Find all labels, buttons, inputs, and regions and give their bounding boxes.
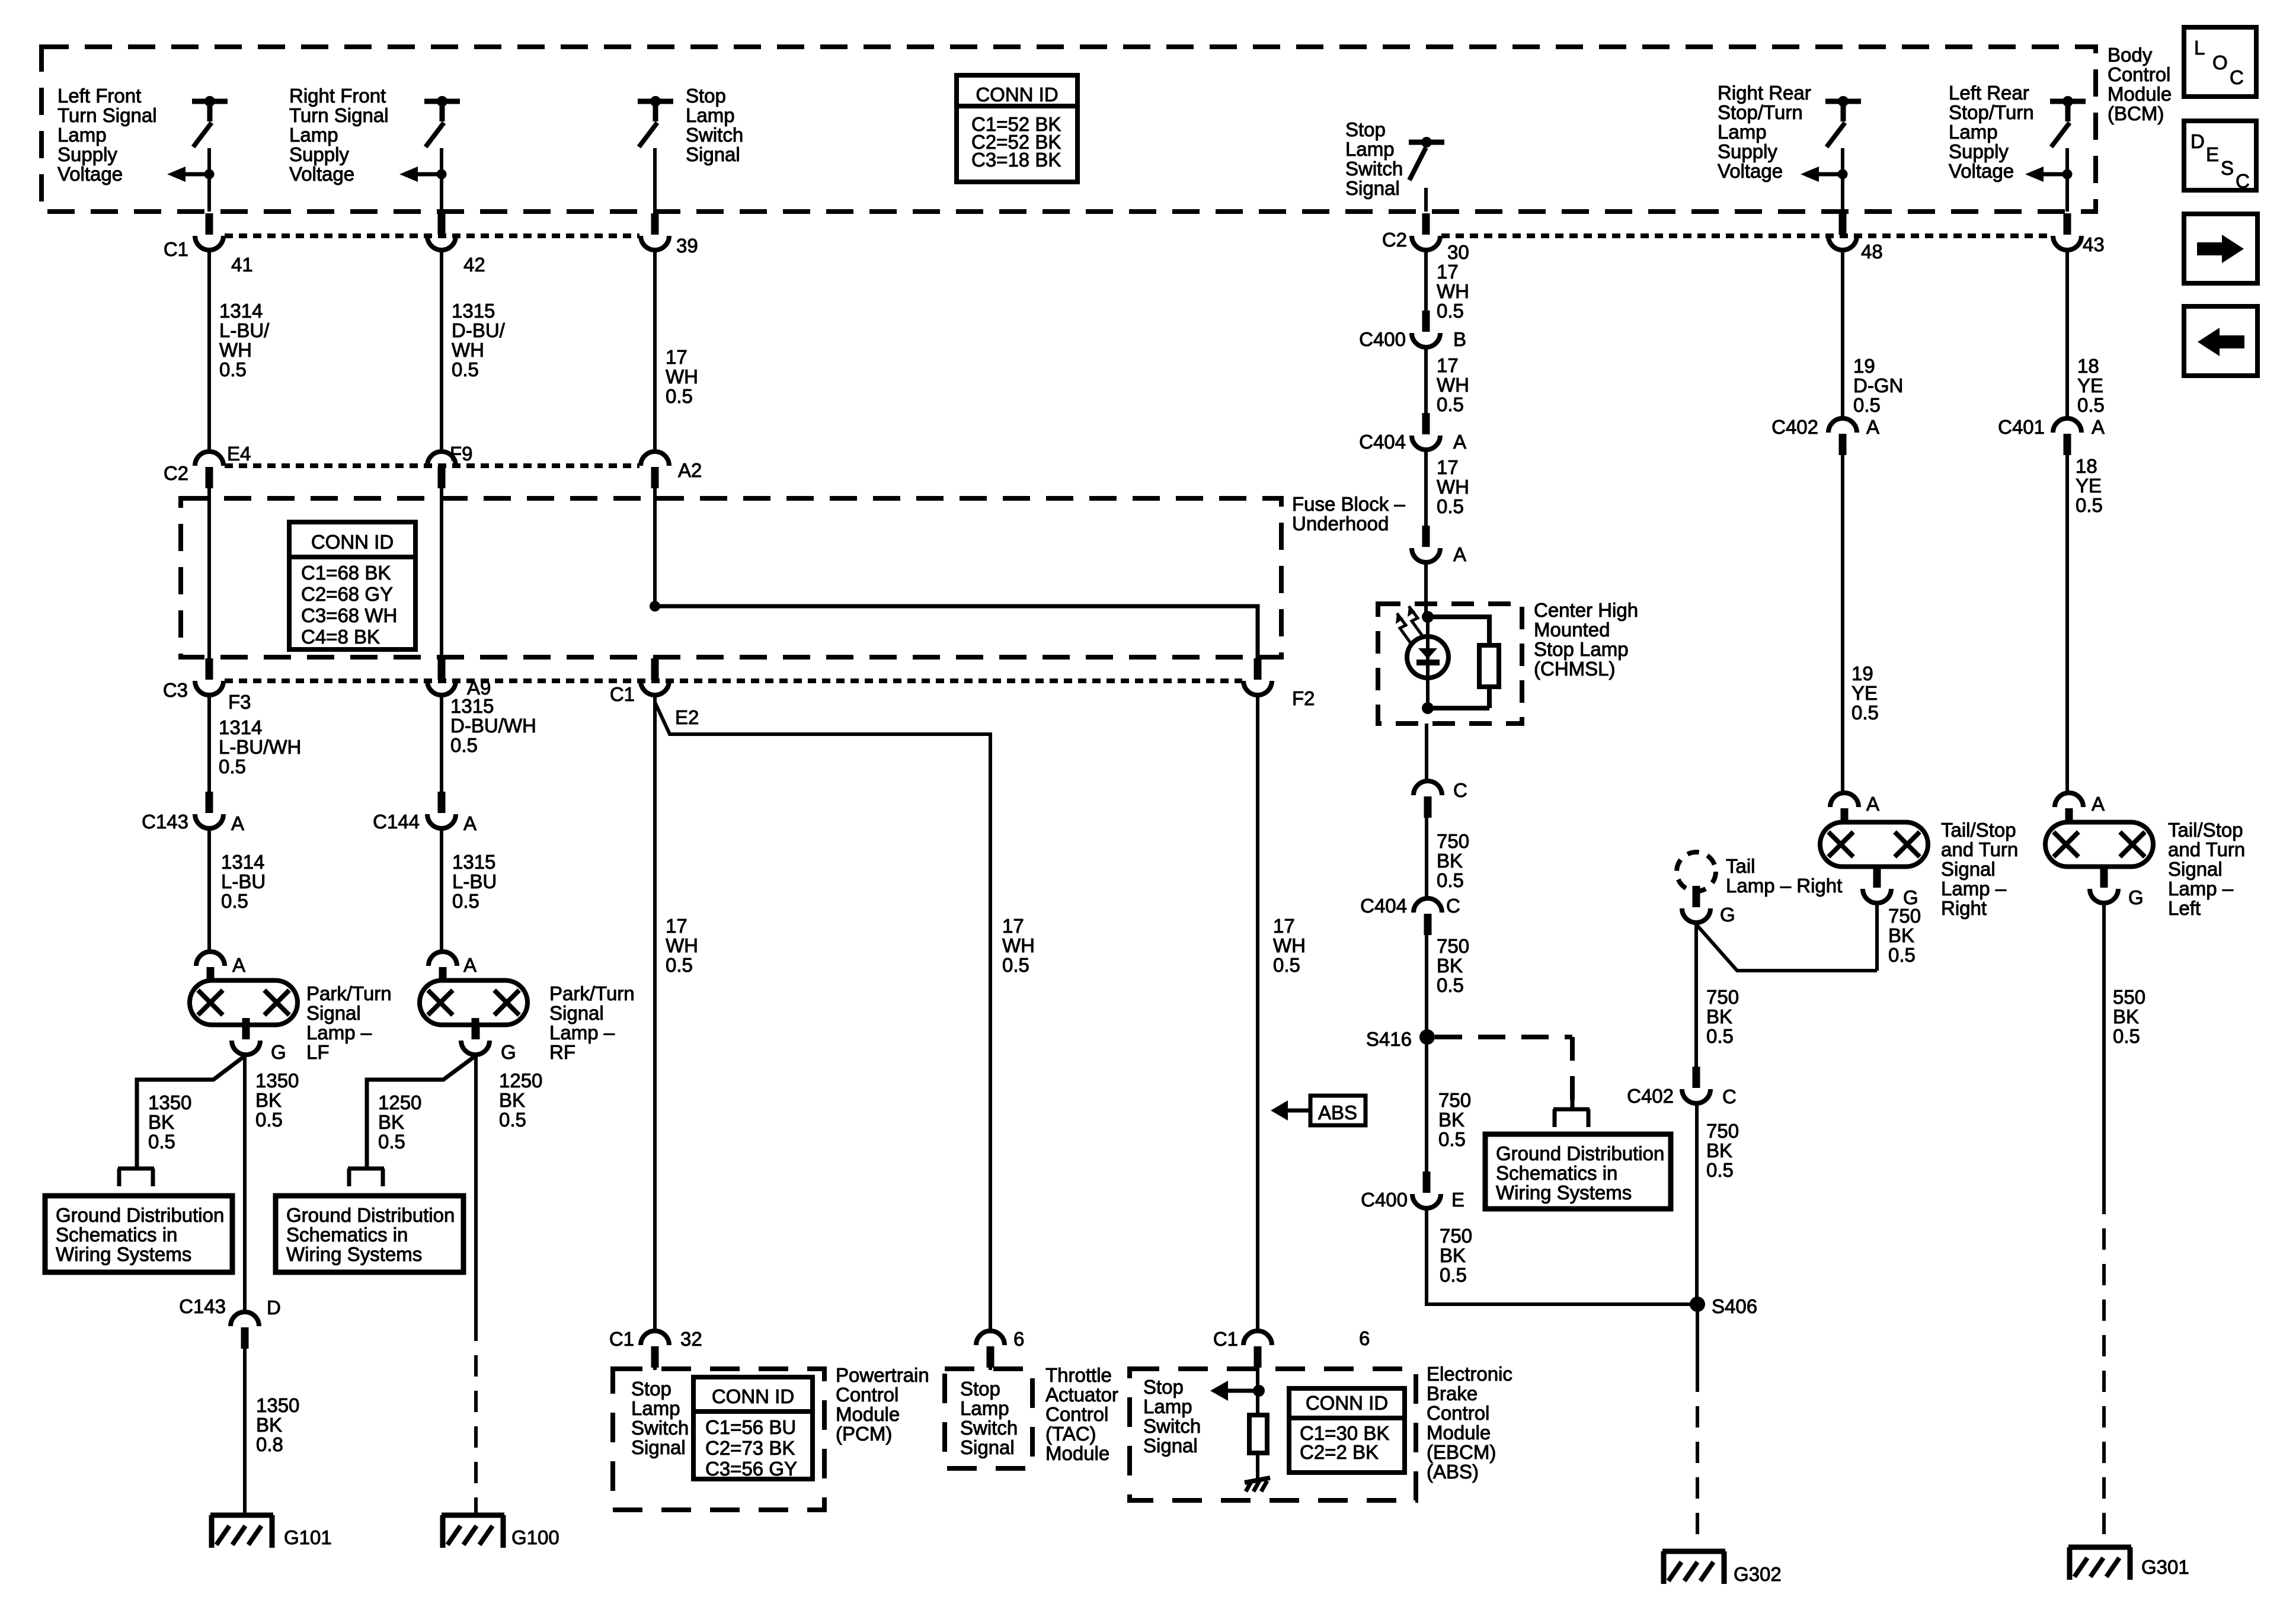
svg-text:C: C <box>2236 170 2250 192</box>
svg-text:Switch: Switch <box>1345 158 1403 180</box>
svg-text:0.5: 0.5 <box>255 1109 283 1131</box>
svg-text:S406: S406 <box>1712 1295 1757 1317</box>
svg-text:A2: A2 <box>678 459 702 481</box>
svg-text:0.5: 0.5 <box>1437 495 1464 517</box>
svg-text:32: 32 <box>680 1328 702 1350</box>
svg-text:0.5: 0.5 <box>450 734 478 756</box>
svg-text:D-BU/WH: D-BU/WH <box>450 715 536 737</box>
svg-text:0.5: 0.5 <box>1853 394 1881 416</box>
svg-text:E: E <box>1451 1189 1464 1211</box>
svg-text:Switch: Switch <box>686 124 743 146</box>
svg-text:L: L <box>2194 37 2205 59</box>
svg-text:0.5: 0.5 <box>2077 394 2105 416</box>
svg-text:Signal: Signal <box>960 1436 1015 1458</box>
svg-text:C1: C1 <box>609 1328 634 1350</box>
svg-text:Wiring Systems: Wiring Systems <box>1496 1182 1632 1204</box>
svg-text:0.5: 0.5 <box>1437 869 1464 891</box>
svg-text:0.5: 0.5 <box>2113 1025 2140 1047</box>
svg-text:(EBCM): (EBCM) <box>1427 1441 1496 1463</box>
svg-text:BK: BK <box>1888 924 1914 946</box>
svg-text:750: 750 <box>1706 986 1739 1008</box>
svg-text:0.5: 0.5 <box>148 1131 175 1153</box>
svg-text:Signal: Signal <box>631 1436 686 1458</box>
svg-text:Voltage: Voltage <box>1949 160 2014 182</box>
svg-text:Switch: Switch <box>631 1417 689 1439</box>
svg-text:Right Front: Right Front <box>289 85 386 107</box>
svg-text:C143: C143 <box>142 811 188 833</box>
svg-text:0.5: 0.5 <box>219 359 247 380</box>
svg-text:Lamp: Lamp <box>631 1397 680 1419</box>
svg-text:C402: C402 <box>1771 416 1818 438</box>
svg-text:YE: YE <box>2076 475 2102 497</box>
svg-text:Signal: Signal <box>686 143 740 165</box>
svg-text:BK: BK <box>148 1111 174 1133</box>
svg-text:D-BU/: D-BU/ <box>452 319 506 341</box>
svg-text:C404: C404 <box>1360 895 1407 917</box>
svg-text:Stop/Turn: Stop/Turn <box>1949 101 2034 123</box>
svg-text:Lamp: Lamp <box>1949 121 1998 143</box>
svg-text:Module: Module <box>836 1403 900 1425</box>
svg-text:0.5: 0.5 <box>1437 393 1464 415</box>
svg-text:Tail: Tail <box>1726 855 1755 877</box>
svg-text:Switch: Switch <box>960 1417 1018 1439</box>
svg-text:0.5: 0.5 <box>1440 1264 1467 1286</box>
svg-text:Underhood: Underhood <box>1292 513 1389 534</box>
svg-text:C: C <box>1446 895 1460 917</box>
svg-text:Lamp – Right: Lamp – Right <box>1726 875 1842 897</box>
svg-text:Schematics in: Schematics in <box>56 1224 177 1246</box>
svg-text:750: 750 <box>1440 1225 1472 1247</box>
svg-text:1315: 1315 <box>450 695 494 717</box>
svg-text:Left Rear: Left Rear <box>1949 82 2029 104</box>
svg-text:L-BU/WH: L-BU/WH <box>219 736 301 758</box>
svg-text:(BCM): (BCM) <box>2108 103 2164 124</box>
svg-text:C1=56 BU: C1=56 BU <box>705 1416 796 1438</box>
svg-text:Supply: Supply <box>1949 140 2009 162</box>
svg-text:30: 30 <box>1447 241 1469 263</box>
svg-text:Center High: Center High <box>1534 599 1638 621</box>
svg-text:19: 19 <box>1853 355 1875 377</box>
svg-text:(ABS): (ABS) <box>1427 1461 1479 1483</box>
svg-text:750: 750 <box>1888 905 1921 927</box>
svg-text:Signal: Signal <box>306 1002 361 1024</box>
svg-text:RF: RF <box>549 1041 575 1063</box>
svg-text:BK: BK <box>2113 1006 2139 1028</box>
svg-text:Tail/Stop: Tail/Stop <box>1941 819 2016 841</box>
svg-text:BK: BK <box>1440 1244 1466 1266</box>
svg-text:F9: F9 <box>450 443 473 465</box>
svg-text:Mounted: Mounted <box>1534 619 1610 641</box>
svg-text:17: 17 <box>1273 915 1295 937</box>
svg-text:42: 42 <box>463 254 485 276</box>
svg-text:0.5: 0.5 <box>499 1109 526 1131</box>
svg-text:1314: 1314 <box>219 716 262 738</box>
svg-text:A: A <box>1453 431 1466 453</box>
svg-text:and Turn: and Turn <box>2168 838 2245 860</box>
svg-text:Wiring Systems: Wiring Systems <box>56 1243 191 1265</box>
svg-text:WH: WH <box>1437 476 1469 498</box>
svg-text:CONN ID: CONN ID <box>311 531 394 553</box>
svg-text:Throttle: Throttle <box>1045 1364 1112 1386</box>
svg-text:CONN ID: CONN ID <box>712 1385 794 1407</box>
svg-text:WH: WH <box>1002 934 1035 956</box>
svg-text:Supply: Supply <box>289 143 349 165</box>
svg-text:Lamp –: Lamp – <box>306 1022 372 1044</box>
svg-text:BK: BK <box>1438 1109 1464 1131</box>
svg-text:0.5: 0.5 <box>1437 300 1464 322</box>
svg-text:Left Front: Left Front <box>57 85 141 107</box>
svg-text:Lamp: Lamp <box>960 1397 1009 1419</box>
svg-text:Lamp: Lamp <box>686 104 735 126</box>
svg-text:G: G <box>2128 886 2144 908</box>
svg-text:D: D <box>267 1297 281 1318</box>
svg-text:A: A <box>463 954 477 976</box>
svg-text:17: 17 <box>1437 354 1459 376</box>
svg-text:Electronic: Electronic <box>1427 1363 1512 1385</box>
svg-text:1314: 1314 <box>221 851 264 873</box>
svg-text:Powertrain: Powertrain <box>836 1364 929 1386</box>
svg-text:Lamp: Lamp <box>57 124 107 146</box>
svg-text:Right: Right <box>1941 897 1987 919</box>
svg-text:Signal: Signal <box>1941 858 1996 880</box>
svg-text:Ground Distribution: Ground Distribution <box>286 1204 455 1226</box>
svg-text:Lamp –: Lamp – <box>549 1022 615 1044</box>
svg-text:C401: C401 <box>1998 416 2045 438</box>
svg-text:1315: 1315 <box>452 851 495 873</box>
svg-text:0.5: 0.5 <box>666 954 693 976</box>
svg-text:0.5: 0.5 <box>1851 702 1879 724</box>
svg-text:0.5: 0.5 <box>1438 1128 1466 1150</box>
svg-text:WH: WH <box>452 339 484 361</box>
svg-text:Stop: Stop <box>1143 1376 1184 1398</box>
svg-text:BK: BK <box>1706 1006 1732 1028</box>
svg-text:0.5: 0.5 <box>1888 944 1916 966</box>
svg-text:Module: Module <box>1427 1422 1491 1443</box>
svg-text:YE: YE <box>2077 375 2103 396</box>
svg-text:Park/Turn: Park/Turn <box>306 982 392 1004</box>
svg-text:Fuse Block –: Fuse Block – <box>1292 493 1405 515</box>
svg-text:Actuator: Actuator <box>1045 1384 1118 1406</box>
svg-text:0.5: 0.5 <box>1002 954 1029 976</box>
svg-text:Park/Turn: Park/Turn <box>549 982 635 1004</box>
svg-text:41: 41 <box>231 254 253 276</box>
svg-text:43: 43 <box>2083 233 2105 255</box>
svg-text:E: E <box>2206 143 2219 165</box>
svg-text:Stop: Stop <box>1345 119 1386 140</box>
svg-text:Control: Control <box>2108 63 2170 85</box>
svg-text:BK: BK <box>1706 1140 1732 1161</box>
svg-text:WH: WH <box>1437 280 1469 302</box>
svg-text:Signal: Signal <box>2168 858 2223 880</box>
svg-text:0.5: 0.5 <box>666 385 693 407</box>
svg-text:F3: F3 <box>228 691 251 713</box>
svg-text:Tail/Stop: Tail/Stop <box>2168 819 2243 841</box>
svg-text:C1=68 BK: C1=68 BK <box>301 562 391 584</box>
svg-text:C: C <box>2230 66 2244 88</box>
svg-text:Stop Lamp: Stop Lamp <box>1534 638 1629 660</box>
svg-text:G: G <box>1720 904 1735 926</box>
svg-text:C3=56 GY: C3=56 GY <box>705 1458 797 1480</box>
svg-text:18: 18 <box>2077 355 2099 377</box>
svg-text:Lamp: Lamp <box>1345 138 1395 160</box>
svg-text:Turn Signal: Turn Signal <box>289 104 389 126</box>
svg-text:C143: C143 <box>179 1295 226 1317</box>
svg-text:750: 750 <box>1706 1120 1739 1142</box>
svg-text:Ground Distribution: Ground Distribution <box>1496 1142 1664 1164</box>
svg-text:C402: C402 <box>1627 1085 1674 1107</box>
svg-text:C: C <box>1722 1086 1737 1108</box>
svg-text:Signal: Signal <box>549 1002 604 1024</box>
svg-text:Stop: Stop <box>631 1378 671 1400</box>
svg-text:C2=68 GY: C2=68 GY <box>301 583 393 605</box>
svg-text:C: C <box>1453 779 1467 801</box>
svg-text:750: 750 <box>1437 830 1469 852</box>
svg-text:Stop/Turn: Stop/Turn <box>1718 101 1803 123</box>
svg-text:48: 48 <box>1861 241 1883 263</box>
svg-text:A: A <box>463 812 477 834</box>
svg-text:C2=73 BK: C2=73 BK <box>705 1437 795 1459</box>
svg-text:17: 17 <box>1437 261 1459 283</box>
svg-text:750: 750 <box>1438 1089 1471 1111</box>
svg-text:Ground Distribution: Ground Distribution <box>56 1204 224 1226</box>
svg-text:Supply: Supply <box>57 143 117 165</box>
svg-text:Control: Control <box>1427 1402 1489 1424</box>
svg-text:Signal: Signal <box>1143 1435 1198 1457</box>
svg-text:O: O <box>2212 52 2228 73</box>
svg-text:G101: G101 <box>284 1526 332 1548</box>
svg-text:C400: C400 <box>1361 1189 1408 1211</box>
svg-text:0.5: 0.5 <box>452 359 479 380</box>
svg-text:Voltage: Voltage <box>289 163 354 185</box>
svg-text:D: D <box>2191 130 2205 152</box>
svg-text:S416: S416 <box>1366 1028 1412 1050</box>
svg-text:17: 17 <box>666 346 687 368</box>
svg-text:(TAC): (TAC) <box>1045 1423 1096 1445</box>
svg-text:C3=68 WH: C3=68 WH <box>301 604 397 626</box>
svg-text:0.8: 0.8 <box>256 1433 283 1455</box>
svg-text:0.5: 0.5 <box>219 756 246 777</box>
svg-text:C3=18 BK: C3=18 BK <box>971 149 1061 171</box>
svg-text:E4: E4 <box>227 443 251 465</box>
svg-text:Left: Left <box>2168 897 2201 919</box>
svg-text:A: A <box>1866 793 1879 815</box>
svg-text:Lamp: Lamp <box>1718 121 1767 143</box>
svg-text:Wiring Systems: Wiring Systems <box>286 1243 422 1265</box>
svg-text:BK: BK <box>1437 850 1463 872</box>
svg-text:L-BU/: L-BU/ <box>219 319 270 341</box>
svg-text:Signal: Signal <box>1345 177 1400 199</box>
svg-text:G: G <box>271 1041 286 1063</box>
svg-text:S: S <box>2221 157 2234 179</box>
svg-text:A: A <box>1866 416 1879 438</box>
svg-text:A: A <box>1453 543 1466 565</box>
svg-text:(CHMSL): (CHMSL) <box>1534 658 1616 680</box>
svg-text:CONN ID: CONN ID <box>1306 1392 1388 1414</box>
svg-text:17: 17 <box>1002 915 1024 937</box>
svg-text:Voltage: Voltage <box>1718 160 1783 182</box>
svg-text:A: A <box>2092 793 2105 815</box>
svg-text:BK: BK <box>256 1414 282 1436</box>
svg-text:C2: C2 <box>1382 229 1407 251</box>
svg-text:WH: WH <box>666 366 698 388</box>
svg-text:Stop: Stop <box>960 1378 1000 1400</box>
svg-text:Lamp: Lamp <box>289 124 338 146</box>
svg-text:Supply: Supply <box>1718 140 1777 162</box>
svg-text:0.5: 0.5 <box>452 890 479 912</box>
svg-text:6: 6 <box>1359 1327 1370 1349</box>
svg-text:C4=8 BK: C4=8 BK <box>301 626 380 648</box>
svg-text:C3: C3 <box>163 679 188 701</box>
svg-text:17: 17 <box>1437 456 1459 478</box>
svg-text:Module: Module <box>1045 1442 1109 1464</box>
svg-text:G100: G100 <box>511 1526 559 1548</box>
svg-text:Module: Module <box>2108 83 2172 105</box>
svg-text:C1: C1 <box>1213 1328 1238 1350</box>
svg-text:BK: BK <box>499 1089 525 1111</box>
svg-text:Stop: Stop <box>686 85 726 107</box>
svg-text:Lamp: Lamp <box>1143 1395 1192 1417</box>
svg-text:1250: 1250 <box>499 1070 542 1092</box>
svg-text:WH: WH <box>1273 934 1306 956</box>
svg-text:Voltage: Voltage <box>57 163 123 185</box>
svg-text:BK: BK <box>255 1089 282 1111</box>
svg-text:0.5: 0.5 <box>1437 974 1464 996</box>
svg-text:Body: Body <box>2108 44 2153 66</box>
svg-text:Turn Signal: Turn Signal <box>57 104 157 126</box>
svg-text:Brake: Brake <box>1427 1382 1478 1404</box>
svg-text:YE: YE <box>1851 682 1878 704</box>
svg-text:Schematics in: Schematics in <box>1496 1162 1617 1184</box>
svg-text:A: A <box>232 954 245 976</box>
svg-text:ABS: ABS <box>1318 1102 1357 1124</box>
svg-text:Lamp –: Lamp – <box>1941 878 2007 900</box>
svg-text:1315: 1315 <box>452 300 495 322</box>
svg-text:Switch: Switch <box>1143 1415 1201 1437</box>
svg-text:18: 18 <box>2076 455 2097 477</box>
svg-text:Control: Control <box>836 1384 898 1406</box>
svg-text:CONN ID: CONN ID <box>976 84 1058 105</box>
svg-text:550: 550 <box>2113 986 2145 1008</box>
svg-text:1350: 1350 <box>255 1070 299 1092</box>
svg-text:1350: 1350 <box>148 1092 191 1113</box>
svg-text:0.5: 0.5 <box>221 890 248 912</box>
svg-text:G301: G301 <box>2141 1556 2189 1578</box>
svg-text:750: 750 <box>1437 935 1469 957</box>
svg-text:1350: 1350 <box>256 1394 299 1416</box>
svg-text:19: 19 <box>1851 662 1873 684</box>
svg-text:Control: Control <box>1045 1403 1108 1425</box>
svg-text:1314: 1314 <box>219 300 263 322</box>
svg-text:G302: G302 <box>1734 1563 1782 1585</box>
svg-text:0.5: 0.5 <box>1706 1159 1734 1181</box>
svg-text:L-BU: L-BU <box>452 870 497 892</box>
svg-text:WH: WH <box>219 339 252 361</box>
svg-text:C1: C1 <box>164 238 188 260</box>
svg-text:B: B <box>1453 328 1466 350</box>
svg-text:C1: C1 <box>610 683 635 705</box>
svg-text:E2: E2 <box>675 706 699 728</box>
svg-text:A: A <box>231 812 244 834</box>
svg-text:F2: F2 <box>1292 687 1315 709</box>
svg-text:0.5: 0.5 <box>1273 954 1300 976</box>
svg-text:C2=2 BK: C2=2 BK <box>1300 1441 1379 1463</box>
svg-text:C144: C144 <box>373 811 420 833</box>
svg-text:and Turn: and Turn <box>1941 838 2018 860</box>
svg-text:G: G <box>501 1041 516 1063</box>
svg-text:Lamp –: Lamp – <box>2168 878 2234 900</box>
svg-text:0.5: 0.5 <box>378 1131 405 1153</box>
svg-text:A: A <box>2092 416 2105 438</box>
svg-text:17: 17 <box>666 915 687 937</box>
svg-text:0.5: 0.5 <box>2076 494 2103 516</box>
svg-text:BK: BK <box>1437 955 1463 977</box>
svg-text:6: 6 <box>1013 1328 1024 1350</box>
svg-text:Schematics in: Schematics in <box>286 1224 408 1246</box>
svg-text:39: 39 <box>676 235 698 257</box>
svg-text:D-GN: D-GN <box>1853 375 1903 396</box>
svg-text:WH: WH <box>1437 374 1469 396</box>
svg-text:C2: C2 <box>164 462 188 484</box>
svg-text:LF: LF <box>306 1041 330 1063</box>
svg-text:C404: C404 <box>1359 431 1406 453</box>
svg-text:(PCM): (PCM) <box>836 1423 892 1445</box>
svg-text:C400: C400 <box>1359 328 1406 350</box>
svg-text:BK: BK <box>378 1111 404 1133</box>
svg-text:Right Rear: Right Rear <box>1718 82 1811 104</box>
svg-text:0.5: 0.5 <box>1706 1025 1734 1047</box>
svg-text:1250: 1250 <box>378 1092 421 1113</box>
svg-text:L-BU: L-BU <box>221 870 266 892</box>
svg-text:WH: WH <box>666 934 698 956</box>
